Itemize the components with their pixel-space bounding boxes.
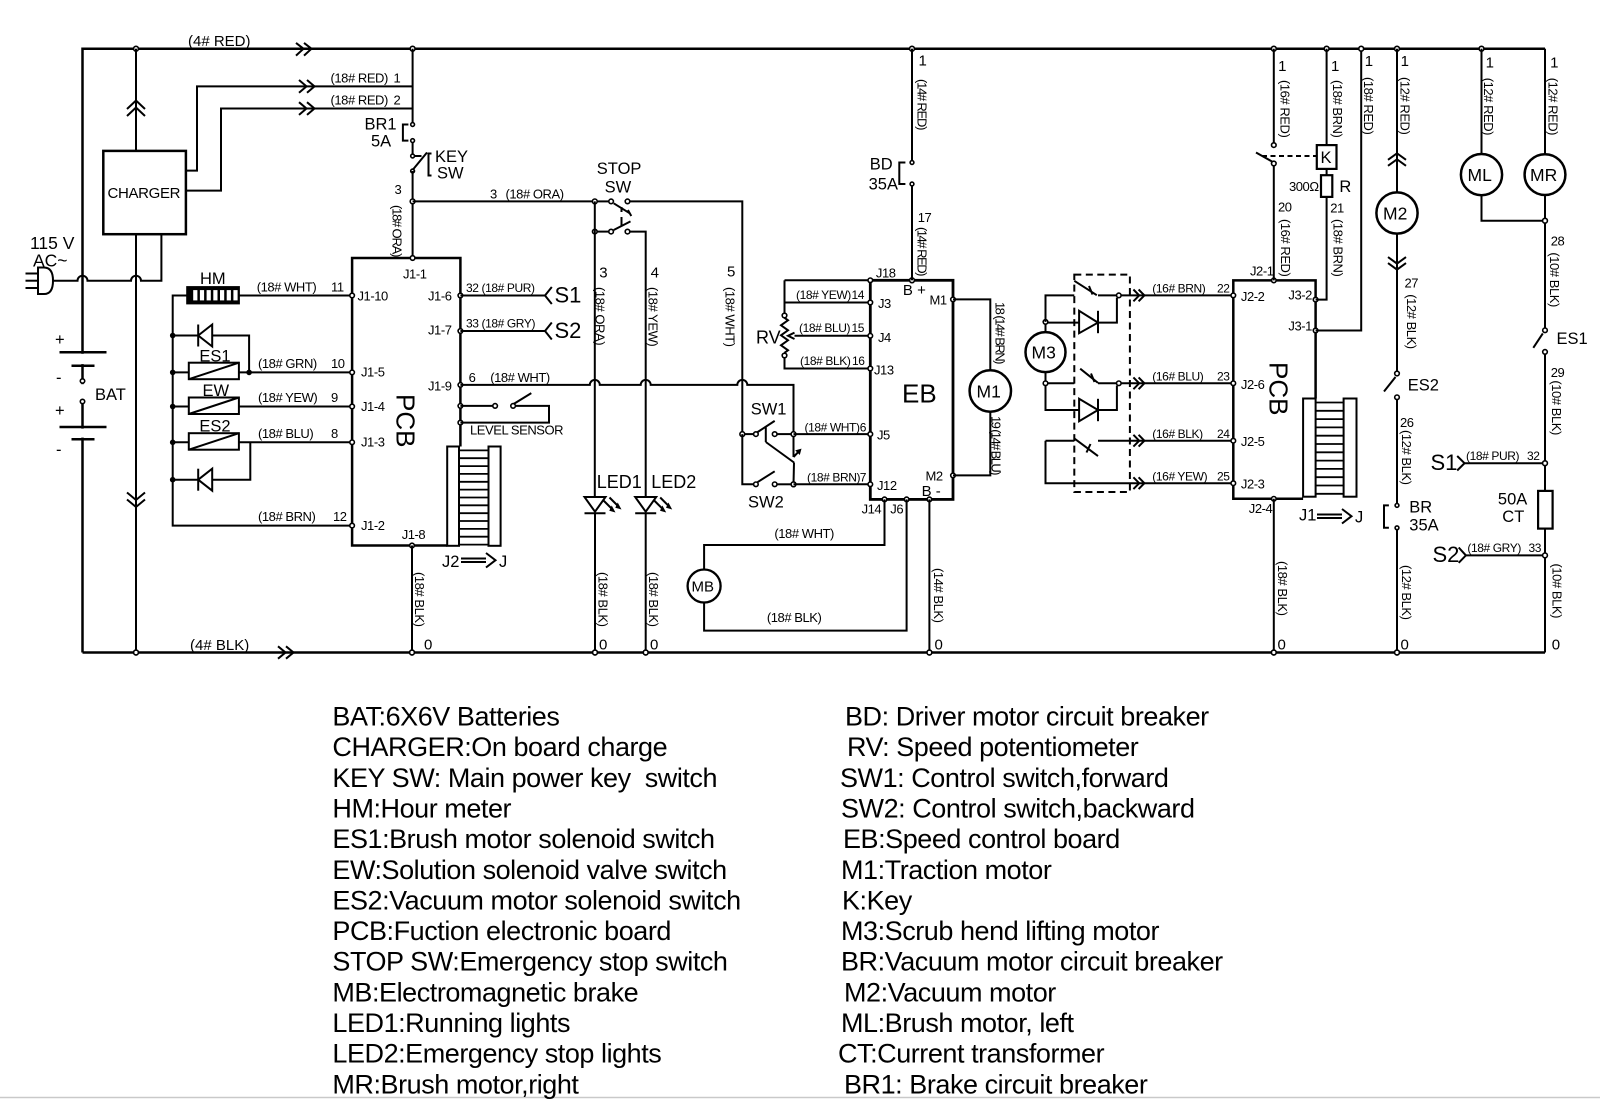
svg-text:ES2:Vacuum motor solenoid swit: ES2:Vacuum motor solenoid switch bbox=[332, 885, 740, 915]
breaker BD 35A from top bus bbox=[869, 46, 932, 280]
svg-text:J1-10: J1-10 bbox=[358, 288, 388, 303]
svg-text:8: 8 bbox=[331, 426, 338, 441]
svg-text:(12# BLK): (12# BLK) bbox=[1399, 430, 1414, 485]
svg-text:7: 7 bbox=[860, 471, 867, 485]
svg-text:(14# RED): (14# RED) bbox=[915, 79, 930, 130]
svg-text:5: 5 bbox=[727, 264, 735, 281]
AC plug 115V bbox=[26, 233, 75, 294]
svg-text:26: 26 bbox=[1400, 415, 1414, 430]
level sensor switch bbox=[458, 393, 563, 437]
svg-text:(18# YEW): (18# YEW) bbox=[646, 287, 661, 346]
svg-text:J1-5: J1-5 bbox=[361, 365, 385, 380]
svg-text:0: 0 bbox=[599, 637, 607, 654]
svg-text:(18# RED): (18# RED) bbox=[331, 71, 388, 86]
svg-text:(18# BLK): (18# BLK) bbox=[1275, 561, 1290, 616]
svg-text:J2: J2 bbox=[442, 553, 459, 571]
svg-text:MB: MB bbox=[692, 579, 715, 596]
svg-text:(18# GRN): (18# GRN) bbox=[258, 356, 317, 371]
hour meter HM bbox=[187, 270, 239, 303]
svg-text:J1: J1 bbox=[1299, 507, 1316, 525]
svg-text:15: 15 bbox=[851, 321, 864, 335]
svg-text:M2: M2 bbox=[1383, 204, 1407, 224]
svg-text:50A: 50A bbox=[1498, 491, 1527, 509]
solenoid EW bbox=[170, 382, 239, 414]
svg-text:20: 20 bbox=[1278, 200, 1292, 215]
svg-text:(16# RED): (16# RED) bbox=[1278, 219, 1293, 276]
svg-text:J13: J13 bbox=[874, 363, 894, 378]
breaker BR 35A bbox=[1384, 499, 1439, 655]
PCB pins J1-x bbox=[350, 256, 463, 548]
svg-text:(16# RED): (16# RED) bbox=[1277, 80, 1292, 137]
svg-text:-: - bbox=[56, 369, 62, 387]
svg-text:EB: EB bbox=[902, 379, 937, 409]
svg-text:3: 3 bbox=[599, 264, 607, 281]
svg-text:J2-1: J2-1 bbox=[1250, 263, 1274, 278]
wire 11 (18# WHT) HM to J1-10 bbox=[239, 280, 352, 296]
svg-text:1: 1 bbox=[1401, 53, 1409, 70]
svg-text:(18# BLK): (18# BLK) bbox=[767, 610, 822, 625]
svg-text:12: 12 bbox=[333, 509, 347, 524]
svg-text:PCB: PCB bbox=[391, 394, 421, 447]
svg-text:J5: J5 bbox=[877, 428, 890, 443]
svg-text:(12# BLK): (12# BLK) bbox=[1404, 294, 1419, 349]
svg-text:3: 3 bbox=[395, 182, 402, 197]
SW1/SW2 mechanical link with arrow bbox=[766, 427, 802, 484]
svg-text:(18# PUR): (18# PUR) bbox=[482, 281, 535, 295]
svg-text:J1-6: J1-6 bbox=[428, 288, 452, 303]
brush motor left ML bbox=[1461, 46, 1545, 220]
svg-text:(18# GRY): (18# GRY) bbox=[1467, 541, 1521, 555]
svg-text:BAT:6X6V Batteries: BAT:6X6V Batteries bbox=[332, 702, 559, 732]
svg-text:LED1:Running lights: LED1:Running lights bbox=[332, 1008, 570, 1038]
wire plug to charger with hops bbox=[53, 234, 161, 281]
traction motor M1 bbox=[953, 299, 1011, 475]
svg-text:(16# YEW): (16# YEW) bbox=[1152, 469, 1207, 483]
svg-text:J3: J3 bbox=[878, 296, 891, 311]
svg-text:S1: S1 bbox=[1431, 450, 1458, 475]
svg-text:J2-2: J2-2 bbox=[1241, 289, 1265, 304]
svg-text:ES1:Brush motor solenoid switc: ES1:Brush motor solenoid switch bbox=[332, 824, 714, 854]
svg-text:SW: SW bbox=[437, 165, 464, 183]
resistor R 300ohm bbox=[1289, 169, 1351, 300]
wire 12 (18# BRN) rail to J1-2 bbox=[258, 509, 347, 524]
svg-text:(16# BLU): (16# BLU) bbox=[1152, 370, 1203, 384]
wire 6 (18# WHT) J1-9 to SW1 with hops bbox=[460, 370, 793, 432]
svg-text:J: J bbox=[1355, 509, 1363, 527]
svg-text:(18# BLK): (18# BLK) bbox=[596, 572, 611, 627]
svg-text:KEY SW: Main power key switch: KEY SW: Main power key switch bbox=[332, 763, 717, 793]
svg-text:4: 4 bbox=[651, 264, 659, 281]
PCB2 function electronic board box bbox=[1233, 280, 1315, 498]
brush motor right MR bbox=[1525, 49, 1566, 328]
svg-text:EW:Solution solenoid valve swi: EW:Solution solenoid valve switch bbox=[332, 855, 726, 885]
svg-text:RV: Speed potentiometer: RV: Speed potentiometer bbox=[847, 732, 1139, 762]
svg-text:33: 33 bbox=[466, 317, 479, 331]
connector J1 comb bbox=[1299, 399, 1363, 527]
svg-text:J3-1: J3-1 bbox=[1288, 318, 1312, 333]
svg-text:STOP SW:Emergency stop switch: STOP SW:Emergency stop switch bbox=[332, 947, 727, 977]
connector J2 comb bbox=[442, 447, 507, 572]
svg-text:BD: Driver motor circuit break: BD: Driver motor circuit breaker bbox=[845, 702, 1209, 732]
svg-text:1: 1 bbox=[1550, 55, 1558, 72]
svg-text:(18# GRY): (18# GRY) bbox=[482, 317, 536, 331]
svg-text:S1: S1 bbox=[555, 283, 582, 308]
key switch KEY SW bbox=[390, 142, 469, 258]
svg-text:HM:Hour meter: HM:Hour meter bbox=[332, 794, 511, 824]
svg-text:ES1: ES1 bbox=[199, 347, 230, 365]
svg-text:J4: J4 bbox=[878, 330, 891, 345]
svg-text:J3-2: J3-2 bbox=[1288, 288, 1312, 303]
svg-text:LEVEL SENSOR: LEVEL SENSOR bbox=[470, 423, 563, 438]
svg-text:PCB: PCB bbox=[1264, 362, 1294, 415]
wire charger bottom to bus bbox=[127, 234, 145, 655]
svg-text:LED2: LED2 bbox=[651, 472, 696, 492]
breaker BR1 5A bbox=[365, 46, 416, 150]
svg-text:(18# YEW): (18# YEW) bbox=[796, 288, 851, 302]
svg-text:(18# BLU): (18# BLU) bbox=[799, 321, 850, 335]
svg-text:SW2: Control switch,backward: SW2: Control switch,backward bbox=[841, 794, 1195, 824]
wire bottom bus (4# BLK) bbox=[83, 637, 1546, 659]
scrub head lifting motor M3 bbox=[1026, 320, 1066, 386]
svg-text:J1-4: J1-4 bbox=[361, 399, 385, 414]
svg-text:J: J bbox=[499, 553, 507, 571]
svg-text:B +: B + bbox=[903, 282, 926, 299]
svg-text:(18# BLK): (18# BLK) bbox=[646, 572, 661, 627]
svg-text:24: 24 bbox=[1217, 427, 1230, 441]
svg-text:300Ω: 300Ω bbox=[1289, 179, 1319, 194]
wire left feed rail bbox=[173, 296, 352, 526]
svg-text:17: 17 bbox=[918, 210, 932, 225]
svg-text:BD: BD bbox=[870, 156, 893, 174]
svg-text:(18# BRN): (18# BRN) bbox=[1331, 219, 1346, 276]
electromagnetic brake MB loop bbox=[688, 499, 907, 630]
svg-text:29: 29 bbox=[1551, 365, 1565, 380]
svg-text:21: 21 bbox=[1330, 201, 1344, 216]
svg-text:(18# BLK): (18# BLK) bbox=[800, 354, 851, 368]
control switch SW2 backward bbox=[742, 434, 870, 511]
svg-text:(16# BRN): (16# BRN) bbox=[1152, 282, 1205, 296]
LED1 bbox=[585, 472, 642, 655]
svg-text:SW1: SW1 bbox=[751, 401, 787, 419]
solenoid contact ES2 (right) bbox=[1384, 371, 1439, 503]
svg-text:ES2: ES2 bbox=[1408, 377, 1439, 395]
svg-text:(12# BLK): (12# BLK) bbox=[1399, 565, 1414, 620]
svg-text:32: 32 bbox=[1527, 449, 1540, 463]
wire 9 (18# YEW) EW to J1-4 bbox=[239, 390, 352, 407]
svg-text:SW1: Control switch,forward: SW1: Control switch,forward bbox=[840, 763, 1168, 793]
svg-text:SW: SW bbox=[605, 179, 632, 197]
svg-text:LED1: LED1 bbox=[597, 472, 642, 492]
svg-text:18 (14# BRN): 18 (14# BRN) bbox=[993, 302, 1008, 364]
svg-text:K:Key: K:Key bbox=[842, 885, 913, 915]
svg-text:BAT: BAT bbox=[95, 386, 126, 404]
svg-text:(14# BLK): (14# BLK) bbox=[931, 568, 946, 623]
svg-text:0: 0 bbox=[1552, 637, 1560, 654]
wire 4 (18# YEW) stop sw to LED2 bbox=[630, 232, 661, 497]
svg-text:J1-2: J1-2 bbox=[361, 518, 385, 533]
svg-text:(18# BRN): (18# BRN) bbox=[807, 471, 860, 485]
key contact switch above J2-1 bbox=[1256, 46, 1293, 280]
svg-text:CHARGER: CHARGER bbox=[108, 185, 181, 202]
svg-text:1: 1 bbox=[1486, 55, 1494, 72]
wire 8 (18# BLU) ES2 to J1-3 bbox=[239, 426, 352, 443]
svg-text:(4# RED): (4# RED) bbox=[188, 33, 251, 50]
svg-text:(18# RED): (18# RED) bbox=[1361, 77, 1376, 134]
emergency stop switch STOP SW bbox=[592, 160, 641, 234]
svg-text:M1: M1 bbox=[977, 382, 1001, 402]
wire J3-1 to top bus (18# RED) bbox=[1316, 46, 1376, 330]
svg-text:K: K bbox=[1321, 149, 1332, 167]
svg-text:(18# BLU): (18# BLU) bbox=[258, 426, 313, 441]
svg-text:0: 0 bbox=[650, 637, 658, 654]
svg-text:MB:Electromagnetic brake: MB:Electromagnetic brake bbox=[332, 977, 638, 1007]
svg-text:32: 32 bbox=[466, 281, 479, 295]
svg-text:(18# BRN): (18# BRN) bbox=[1330, 80, 1345, 137]
svg-text:S2: S2 bbox=[1433, 542, 1460, 567]
solenoid ES2 bbox=[170, 417, 239, 449]
svg-text:(18# WHT): (18# WHT) bbox=[257, 280, 317, 295]
svg-text:28: 28 bbox=[1551, 234, 1565, 249]
speed potentiometer RV bbox=[756, 280, 870, 368]
svg-text:M2: M2 bbox=[926, 469, 943, 484]
svg-text:ES1: ES1 bbox=[1557, 330, 1588, 348]
svg-text:ML: ML bbox=[1468, 165, 1493, 185]
svg-text:1: 1 bbox=[1331, 58, 1339, 75]
svg-text:SW2: SW2 bbox=[748, 494, 784, 512]
wire B- to bottom bus (14# BLK) bbox=[927, 499, 946, 654]
svg-text:0: 0 bbox=[1278, 637, 1286, 654]
svg-text:(12# RED): (12# RED) bbox=[1398, 77, 1413, 134]
legend text right column bbox=[838, 702, 1223, 1100]
svg-text:23: 23 bbox=[1217, 370, 1230, 384]
key K box bbox=[1262, 46, 1345, 169]
svg-text:J2-4: J2-4 bbox=[1249, 501, 1273, 516]
svg-text:MR: MR bbox=[1530, 165, 1557, 185]
M3 diode row 2 bbox=[1048, 298, 1117, 334]
dashed box M3 switch/diode block bbox=[1074, 275, 1130, 492]
svg-text:EW: EW bbox=[203, 382, 230, 400]
svg-text:(4# BLK): (4# BLK) bbox=[190, 637, 249, 654]
legend text left column bbox=[332, 702, 740, 1100]
svg-text:(10# BLK): (10# BLK) bbox=[1549, 380, 1564, 435]
solenoid contact ES1 (right) bbox=[1533, 328, 1587, 653]
svg-text:25: 25 bbox=[1217, 469, 1230, 483]
svg-text:(18# ORA): (18# ORA) bbox=[390, 205, 405, 257]
svg-text:CHARGER:On board charge: CHARGER:On board charge bbox=[332, 732, 667, 762]
svg-text:0: 0 bbox=[935, 637, 943, 654]
svg-text:33: 33 bbox=[1529, 541, 1542, 555]
svg-text:35A: 35A bbox=[1409, 517, 1438, 535]
svg-text:5A: 5A bbox=[371, 133, 391, 151]
svg-text:6: 6 bbox=[469, 370, 476, 385]
battery BAT bbox=[55, 331, 126, 459]
svg-text:J6: J6 bbox=[890, 502, 903, 517]
wire 2 (18# RED) charger to BR1 bbox=[186, 93, 413, 191]
svg-text:1: 1 bbox=[1365, 53, 1373, 70]
svg-text:(12# RED): (12# RED) bbox=[1546, 78, 1561, 135]
svg-text:(12# RED): (12# RED) bbox=[1481, 78, 1496, 135]
svg-text:22: 22 bbox=[1217, 282, 1230, 296]
svg-text:BR: BR bbox=[1409, 499, 1432, 517]
svg-text:J18: J18 bbox=[876, 266, 896, 281]
svg-text:(18# ORA): (18# ORA) bbox=[506, 187, 564, 202]
svg-text:19 (14# BLU): 19 (14# BLU) bbox=[989, 416, 1004, 475]
M3 switch row 3 to wire 23 (16# BLU) bbox=[1048, 369, 1234, 390]
svg-text:(18# WHT): (18# WHT) bbox=[805, 421, 860, 435]
vacuum motor M2 branch bbox=[1376, 46, 1419, 371]
control switch SW1 forward bbox=[740, 401, 870, 437]
svg-text:J1-3: J1-3 bbox=[361, 435, 385, 450]
diode D2 flyback for ES2 bbox=[170, 442, 250, 490]
wire 5 (18# WHT) stop sw to SW1/SW2 bbox=[630, 201, 743, 434]
svg-text:(10# BLK): (10# BLK) bbox=[1547, 252, 1562, 307]
svg-text:S2: S2 bbox=[555, 318, 582, 343]
M3 diode row 4 bbox=[1046, 386, 1117, 422]
PCB function electronic board box bbox=[352, 258, 460, 546]
solenoid ES1 bbox=[170, 347, 239, 379]
svg-text:J2-3: J2-3 bbox=[1241, 477, 1265, 492]
svg-text:M2:Vacuum motor: M2:Vacuum motor bbox=[844, 977, 1056, 1007]
svg-text:BR:Vacuum motor circuit breake: BR:Vacuum motor circuit breaker bbox=[841, 947, 1223, 977]
svg-text:(18# ORA): (18# ORA) bbox=[593, 287, 608, 345]
svg-text:J1-1: J1-1 bbox=[403, 267, 427, 282]
svg-text:1: 1 bbox=[919, 53, 927, 70]
wire J1-8 to bottom bus (18# BLK) bbox=[410, 546, 433, 655]
svg-text:11: 11 bbox=[331, 280, 344, 295]
wire 3 vertical to LED1 bbox=[593, 201, 608, 496]
svg-text:(18# RED): (18# RED) bbox=[331, 93, 388, 108]
svg-text:STOP: STOP bbox=[597, 160, 642, 178]
svg-text:1: 1 bbox=[394, 71, 401, 86]
connector S1 right wire 32 (18# PUR) bbox=[1431, 449, 1548, 475]
PCB2 pins bbox=[1231, 263, 1318, 516]
svg-text:2: 2 bbox=[394, 93, 401, 108]
svg-text:RV: RV bbox=[756, 328, 781, 348]
svg-text:M1: M1 bbox=[930, 293, 947, 308]
svg-text:LED2:Emergency stop lights: LED2:Emergency stop lights bbox=[332, 1039, 661, 1069]
svg-text:KEY: KEY bbox=[435, 148, 468, 166]
svg-text:0: 0 bbox=[424, 637, 432, 654]
svg-text:(18# WHT): (18# WHT) bbox=[490, 370, 550, 385]
svg-text:(18# BLK): (18# BLK) bbox=[412, 572, 427, 627]
connector S1 from J1-6 wire 32 (18# PUR) bbox=[460, 281, 581, 308]
svg-text:CT:Current transformer: CT:Current transformer bbox=[838, 1039, 1105, 1069]
svg-text:ML:Brush motor, left: ML:Brush motor, left bbox=[841, 1008, 1075, 1038]
svg-text:J2-6: J2-6 bbox=[1241, 377, 1265, 392]
M3 switch row 1 to wire 22 (16# BRN) bbox=[1046, 281, 1234, 322]
wire row 6 to wire 25 (16# YEW) bbox=[1046, 441, 1234, 489]
svg-text:+: + bbox=[55, 402, 65, 420]
limit switch row 5 to wire 24 (16# BLK) bbox=[1046, 427, 1234, 456]
svg-text:HM: HM bbox=[200, 270, 226, 288]
EB pins bbox=[862, 266, 956, 517]
svg-text:BR1: BR1 bbox=[365, 116, 397, 134]
svg-text:J14: J14 bbox=[862, 502, 882, 517]
diode D1 flyback for ES1 bbox=[170, 325, 252, 376]
svg-text:(16# BLK): (16# BLK) bbox=[1152, 427, 1203, 441]
svg-text:(14# RED): (14# RED) bbox=[915, 227, 930, 276]
svg-text:J1-8: J1-8 bbox=[402, 527, 426, 542]
svg-text:CT: CT bbox=[1502, 508, 1524, 526]
svg-text:J1-9: J1-9 bbox=[428, 379, 452, 394]
svg-text:1: 1 bbox=[1278, 58, 1286, 75]
svg-text:M3:Scrub hend lifting motor: M3:Scrub hend lifting motor bbox=[841, 916, 1159, 946]
svg-text:(18# YEW): (18# YEW) bbox=[258, 390, 317, 405]
speed control board EB box bbox=[870, 280, 953, 500]
svg-text:PCB:Fuction electronic board: PCB:Fuction electronic board bbox=[332, 916, 671, 946]
svg-text:14: 14 bbox=[851, 288, 864, 302]
svg-text:0: 0 bbox=[1401, 637, 1409, 654]
svg-text:3: 3 bbox=[490, 187, 497, 202]
svg-text:R: R bbox=[1339, 178, 1351, 196]
wire 10 (18# GRN) ES1 to J1-5 bbox=[239, 356, 352, 373]
svg-text:9: 9 bbox=[331, 390, 338, 405]
svg-text:M3: M3 bbox=[1032, 343, 1056, 363]
svg-text:J12: J12 bbox=[877, 478, 897, 493]
svg-text:35A: 35A bbox=[869, 176, 898, 194]
connector S2 from J1-7 wire 33 (18# GRY) bbox=[460, 317, 581, 344]
svg-text:(18# PUR): (18# PUR) bbox=[1466, 449, 1519, 463]
svg-text:27: 27 bbox=[1405, 276, 1419, 291]
wire charger top feed bbox=[127, 46, 145, 151]
svg-text:J2-5: J2-5 bbox=[1241, 434, 1265, 449]
wire 3 (18# ORA) to stop switch bbox=[413, 187, 595, 202]
svg-text:ES2: ES2 bbox=[199, 417, 230, 435]
svg-text:BR1: Brake circuit breaker: BR1: Brake circuit breaker bbox=[844, 1069, 1148, 1099]
svg-text:EB:Speed control board: EB:Speed control board bbox=[843, 824, 1120, 854]
svg-text:+: + bbox=[55, 331, 65, 349]
svg-text:-: - bbox=[56, 441, 62, 459]
wire top bus (4# RED) bbox=[83, 33, 1546, 653]
svg-text:6: 6 bbox=[860, 421, 867, 435]
svg-text:(10# BLK): (10# BLK) bbox=[1550, 564, 1565, 619]
charger box bbox=[103, 151, 186, 234]
svg-text:10: 10 bbox=[331, 356, 345, 371]
wire 1 (18# RED) charger to bus bbox=[186, 71, 413, 171]
svg-text:M1:Traction motor: M1:Traction motor bbox=[841, 855, 1052, 885]
svg-text:(18# WHT): (18# WHT) bbox=[723, 287, 738, 347]
svg-text:(18# BRN): (18# BRN) bbox=[258, 509, 315, 524]
faint scan line at bottom bbox=[0, 1097, 1600, 1099]
svg-text:(18# WHT): (18# WHT) bbox=[774, 526, 834, 541]
connector S2 right wire 33 (18# GRY) bbox=[1433, 541, 1565, 654]
LED2 bbox=[635, 472, 696, 655]
wire J2-4 to bottom bus (18# BLK) bbox=[1271, 499, 1289, 655]
svg-text:MR:Brush motor,right: MR:Brush motor,right bbox=[332, 1069, 579, 1099]
svg-text:J1-7: J1-7 bbox=[428, 323, 452, 338]
current transformer CT 50A bbox=[1498, 491, 1553, 529]
svg-text:16: 16 bbox=[852, 354, 865, 368]
